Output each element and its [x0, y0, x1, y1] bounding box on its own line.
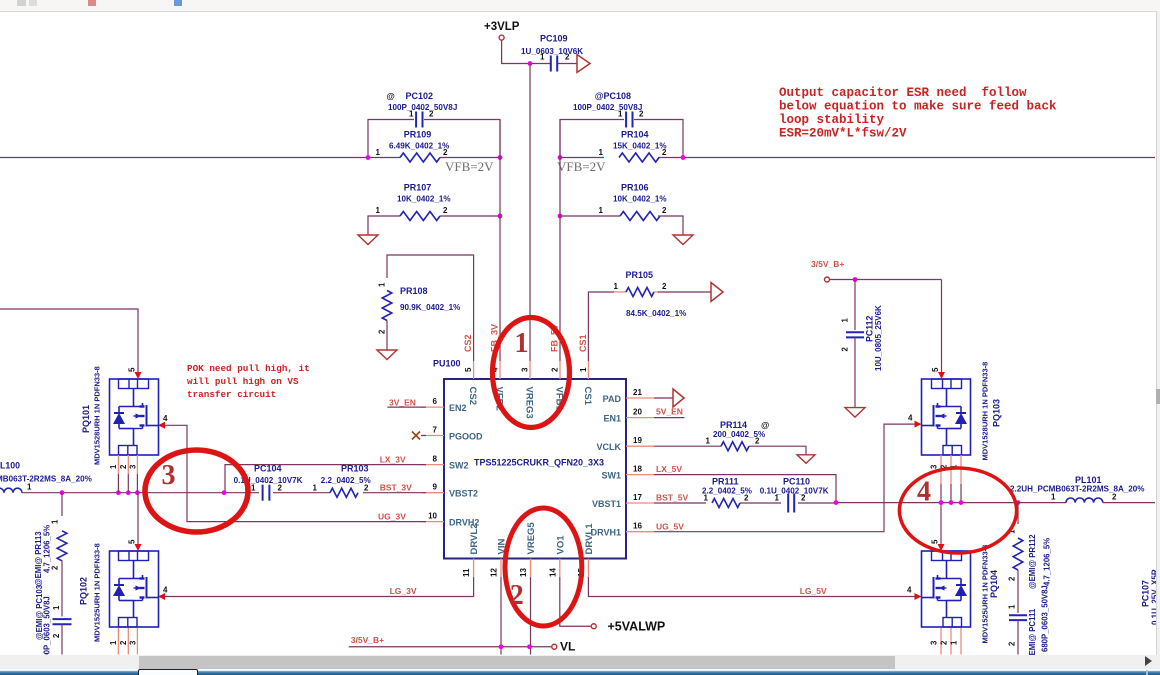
- svg-text:@PC108: @PC108: [595, 91, 631, 101]
- svg-text:VFB=2V: VFB=2V: [557, 159, 606, 174]
- svg-text:will pull high on VS: will pull high on VS: [187, 376, 299, 387]
- svg-text:transfer circuit: transfer circuit: [187, 389, 276, 400]
- svg-text:UG_5V: UG_5V: [656, 522, 684, 532]
- svg-text:2: 2: [1008, 641, 1017, 646]
- svg-text:1: 1: [614, 282, 619, 291]
- svg-text:6: 6: [433, 397, 438, 406]
- svg-text:PC109: PC109: [540, 34, 568, 44]
- svg-text:DRVL2: DRVL2: [469, 524, 480, 555]
- svg-text:@: @: [761, 420, 769, 430]
- svg-text:2: 2: [801, 494, 806, 503]
- svg-text:PR108: PR108: [400, 286, 428, 296]
- svg-text:2.2UH_PCMB063T-2R2MS_8A_20%: 2.2UH_PCMB063T-2R2MS_8A_20%: [1010, 485, 1145, 494]
- svg-text:PR105: PR105: [626, 270, 654, 280]
- svg-text:3: 3: [930, 464, 939, 469]
- svg-text:18: 18: [633, 465, 642, 474]
- svg-text:MDV1525URH 1N PDFN33-8: MDV1525URH 1N PDFN33-8: [93, 543, 102, 642]
- svg-text:1: 1: [950, 640, 959, 645]
- svg-text:2: 2: [662, 206, 667, 215]
- svg-text:2: 2: [119, 640, 128, 645]
- svg-text:PR109: PR109: [404, 130, 432, 140]
- svg-text:2: 2: [443, 206, 448, 215]
- svg-text:100P_0402_50V8J: 100P_0402_50V8J: [573, 103, 642, 112]
- svg-text:680P_0603_50V8J: 680P_0603_50V8J: [1041, 585, 1050, 652]
- svg-text:VBST1: VBST1: [592, 499, 621, 509]
- svg-text:DRVH1: DRVH1: [591, 528, 621, 538]
- svg-text:4: 4: [908, 414, 913, 423]
- svg-text:MB063T-2R2MS_8A_20%: MB063T-2R2MS_8A_20%: [0, 475, 92, 484]
- svg-text:SW2: SW2: [449, 461, 469, 471]
- svg-text:4: 4: [917, 477, 931, 508]
- svg-text:1: 1: [378, 282, 387, 287]
- svg-text:5: 5: [128, 367, 137, 372]
- svg-text:1: 1: [409, 110, 414, 119]
- svg-text:2: 2: [744, 494, 749, 503]
- svg-text:3/5V_B+: 3/5V_B+: [811, 259, 844, 269]
- svg-text:TPS51225CRUKR_QFN20_3X3: TPS51225CRUKR_QFN20_3X3: [474, 458, 604, 468]
- svg-text:MDV1528URH 1N PDFN33-8: MDV1528URH 1N PDFN33-8: [981, 362, 990, 461]
- svg-text:2: 2: [51, 565, 60, 570]
- svg-text:CS1: CS1: [578, 334, 588, 352]
- svg-text:10K_0402_1%: 10K_0402_1%: [397, 195, 451, 204]
- svg-text:4.7_1206_5%: 4.7_1206_5%: [43, 525, 52, 573]
- svg-text:4.7_1206_5%: 4.7_1206_5%: [1043, 538, 1052, 586]
- svg-text:LX_5V: LX_5V: [656, 464, 682, 474]
- svg-text:2: 2: [443, 148, 448, 157]
- svg-text:loop stability: loop stability: [779, 113, 885, 127]
- svg-text:VFB=2V: VFB=2V: [445, 159, 494, 174]
- svg-text:MDV1528URH 1N PDFN33-8: MDV1528URH 1N PDFN33-8: [93, 366, 102, 465]
- svg-text:4: 4: [907, 586, 912, 595]
- svg-text:PQ104: PQ104: [989, 570, 999, 598]
- svg-text:1: 1: [109, 464, 118, 469]
- svg-text:PQ101: PQ101: [81, 405, 91, 433]
- svg-text:11: 11: [462, 568, 471, 577]
- svg-text:1: 1: [706, 437, 711, 446]
- svg-text:3: 3: [521, 367, 530, 372]
- svg-text:2: 2: [639, 110, 644, 119]
- svg-text:19: 19: [633, 436, 642, 445]
- svg-text:1: 1: [579, 367, 588, 372]
- svg-text:LG_5V: LG_5V: [800, 586, 827, 596]
- svg-text:PR104: PR104: [621, 130, 649, 140]
- svg-text:90.9K_0402_1%: 90.9K_0402_1%: [400, 303, 460, 312]
- svg-text:BST_3V: BST_3V: [380, 483, 412, 493]
- svg-text:CS2: CS2: [463, 334, 473, 352]
- svg-text:2: 2: [378, 329, 387, 334]
- svg-text:2: 2: [429, 110, 434, 119]
- svg-text:4: 4: [163, 414, 168, 423]
- svg-text:2: 2: [662, 282, 667, 291]
- svg-text:1U_0603_10V6K: 1U_0603_10V6K: [521, 47, 583, 56]
- svg-text:1: 1: [775, 494, 780, 503]
- svg-text:84.5K_0402_1%: 84.5K_0402_1%: [626, 309, 686, 318]
- svg-text:5: 5: [128, 539, 137, 544]
- svg-text:1: 1: [540, 53, 545, 62]
- svg-text:VREG3: VREG3: [524, 387, 535, 419]
- svg-text:1: 1: [1008, 604, 1017, 609]
- svg-text:PAD: PAD: [603, 394, 622, 404]
- svg-text:Output capacitor ESR need fol: Output capacitor ESR need follow: [779, 86, 1027, 100]
- svg-text:2: 2: [364, 484, 369, 493]
- svg-text:14: 14: [548, 568, 557, 577]
- svg-text:1: 1: [376, 148, 381, 157]
- svg-text:1: 1: [841, 318, 850, 323]
- svg-text:5: 5: [931, 367, 940, 372]
- svg-text:EN2: EN2: [449, 403, 467, 413]
- svg-text:0.1U_0402_10V7K: 0.1U_0402_10V7K: [760, 487, 829, 496]
- svg-text:5V_EN: 5V_EN: [656, 407, 683, 417]
- svg-text:2: 2: [1008, 576, 1017, 581]
- svg-text:2: 2: [52, 633, 61, 638]
- svg-text:PC112: PC112: [865, 315, 875, 342]
- svg-text:L100: L100: [0, 461, 20, 471]
- svg-text:100P_0402_50V8J: 100P_0402_50V8J: [388, 103, 457, 112]
- svg-text:LX_3V: LX_3V: [380, 455, 406, 465]
- svg-text:10U_0805_25V6K: 10U_0805_25V6K: [874, 305, 883, 371]
- svg-text:DRVL1: DRVL1: [584, 523, 595, 555]
- svg-text:1: 1: [599, 148, 604, 157]
- svg-text:SW1: SW1: [601, 471, 621, 481]
- svg-text:1: 1: [251, 484, 256, 493]
- svg-text:2: 2: [1112, 493, 1117, 502]
- svg-text:5: 5: [464, 367, 473, 372]
- svg-text:12: 12: [490, 568, 499, 577]
- svg-text:16: 16: [633, 522, 642, 531]
- svg-text:3: 3: [129, 640, 138, 645]
- svg-text:1: 1: [599, 206, 604, 215]
- svg-text:LG_3V: LG_3V: [390, 586, 417, 596]
- svg-text:VREG5: VREG5: [526, 522, 537, 555]
- svg-text:PC104: PC104: [254, 464, 282, 474]
- svg-text:10: 10: [428, 512, 437, 521]
- svg-text:PGOOD: PGOOD: [449, 432, 483, 442]
- svg-text:2: 2: [551, 367, 560, 372]
- svg-text:1: 1: [376, 206, 381, 215]
- svg-text:VO1: VO1: [555, 535, 566, 555]
- svg-text:PQ102: PQ102: [79, 577, 89, 605]
- svg-text:9: 9: [433, 483, 438, 492]
- svg-text:2: 2: [755, 437, 760, 446]
- svg-text:VL: VL: [560, 640, 575, 654]
- svg-text:100P_0603_50V8J: 100P_0603_50V8J: [43, 596, 52, 663]
- svg-text:+3VLP: +3VLP: [484, 21, 520, 33]
- svg-text:2: 2: [278, 484, 283, 493]
- svg-text:6.49K_0402_1%: 6.49K_0402_1%: [389, 142, 449, 151]
- svg-text:15K_0402_1%: 15K_0402_1%: [613, 142, 667, 151]
- svg-text:+5VALWP: +5VALWP: [608, 620, 666, 634]
- svg-text:2: 2: [940, 640, 949, 645]
- svg-text:PR114: PR114: [720, 420, 747, 430]
- svg-text:PC110: PC110: [783, 477, 810, 487]
- svg-text:CS1: CS1: [582, 387, 593, 406]
- svg-text:EN1: EN1: [603, 414, 621, 424]
- svg-text:13: 13: [519, 568, 528, 577]
- svg-text:5: 5: [931, 539, 940, 544]
- svg-text:3: 3: [129, 464, 138, 469]
- svg-text:UG_3V: UG_3V: [378, 512, 406, 522]
- svg-text:2: 2: [119, 464, 128, 469]
- svg-text:1: 1: [109, 640, 118, 645]
- svg-text:3: 3: [162, 460, 176, 491]
- svg-text:20: 20: [633, 408, 642, 417]
- svg-text:PR111: PR111: [712, 477, 739, 487]
- svg-text:1: 1: [51, 519, 60, 524]
- svg-text:21: 21: [633, 388, 642, 397]
- svg-text:1: 1: [313, 484, 318, 493]
- svg-text:PU100: PU100: [433, 359, 461, 369]
- svg-text:17: 17: [633, 493, 642, 502]
- svg-text:PR103: PR103: [341, 464, 369, 474]
- svg-text:below equation to make sure fe: below equation to make sure feed back: [779, 100, 1057, 114]
- svg-text:POK need pull high, it: POK need pull high, it: [187, 363, 310, 374]
- svg-text:10K_0402_1%: 10K_0402_1%: [613, 195, 667, 204]
- svg-text:1: 1: [618, 110, 623, 119]
- svg-text:2: 2: [841, 347, 850, 352]
- svg-text:2: 2: [510, 580, 524, 611]
- svg-text:8: 8: [433, 455, 438, 464]
- svg-text:3V_EN: 3V_EN: [389, 398, 416, 408]
- svg-text:1: 1: [1051, 493, 1056, 502]
- svg-text:PC107: PC107: [1141, 580, 1151, 607]
- svg-text:3/5V_B+: 3/5V_B+: [351, 635, 384, 645]
- svg-text:1: 1: [515, 328, 529, 359]
- svg-text:@: @: [387, 91, 395, 101]
- svg-text:CS2: CS2: [467, 387, 478, 405]
- svg-text:3: 3: [930, 640, 939, 645]
- svg-text:2: 2: [662, 148, 667, 157]
- svg-text:PR106: PR106: [621, 183, 649, 193]
- svg-text:PC102: PC102: [406, 91, 434, 101]
- svg-text:BST_5V: BST_5V: [656, 493, 688, 503]
- svg-text:PL101: PL101: [1075, 475, 1102, 485]
- svg-text:4: 4: [163, 586, 168, 595]
- svg-text:1: 1: [27, 483, 32, 492]
- svg-text:2: 2: [565, 53, 570, 62]
- svg-text:PQ103: PQ103: [992, 399, 1002, 427]
- svg-text:7: 7: [433, 426, 438, 435]
- svg-text:VCLK: VCLK: [597, 442, 622, 452]
- svg-text:1: 1: [52, 605, 61, 610]
- svg-text:ESR=20mV*L*fsw/2V: ESR=20mV*L*fsw/2V: [779, 127, 907, 141]
- svg-text:1: 1: [704, 494, 709, 503]
- svg-text:PR107: PR107: [404, 183, 432, 193]
- svg-text:VBST2: VBST2: [449, 489, 478, 499]
- svg-text:@EMI@ PR112: @EMI@ PR112: [1028, 534, 1037, 589]
